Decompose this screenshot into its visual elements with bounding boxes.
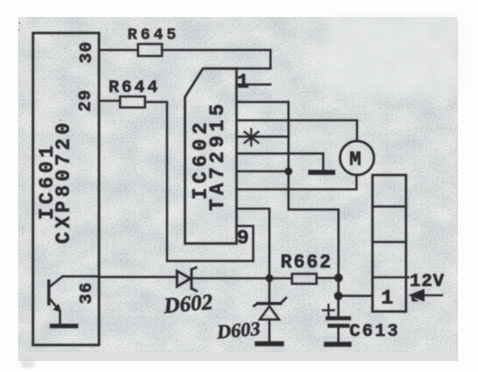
- svg-text:29: 29: [76, 89, 96, 112]
- svg-text:30: 30: [77, 41, 97, 64]
- svg-text:36: 36: [77, 282, 97, 305]
- svg-text:TA72915: TA72915: [207, 100, 230, 211]
- wire IC602 pin a: [237, 102, 339, 278]
- svg-text:1: 1: [381, 288, 393, 311]
- wire IC602 pin g down to bus: [237, 209, 270, 278]
- wire bus D602 to R662: [191, 277, 293, 279]
- wire pin36 bus: [99, 276, 177, 278]
- wire node D down to C613: [337, 296, 339, 317]
- transistor Q inside IC601: [49, 276, 99, 323]
- ground below D603: [257, 341, 281, 346]
- connector column: [373, 175, 409, 312]
- svg-text:CXP80720: CXP80720: [53, 119, 76, 244]
- IC601: [33, 33, 99, 345]
- op-amp/driver IC602: [185, 69, 237, 244]
- svg-text:R644: R644: [109, 78, 161, 98]
- wire R645 to IC602 pin1: [162, 50, 271, 69]
- wire pin30 to R645: [99, 49, 138, 51]
- node junction dot D: [334, 292, 343, 301]
- svg-text:1: 1: [237, 72, 249, 95]
- 12V arrow: [408, 289, 442, 302]
- capacitor C613: [323, 305, 400, 342]
- wire R644 to IC602 pin9: [145, 102, 253, 261]
- wire node C down to node D: [337, 278, 339, 296]
- zener diode D603: [215, 278, 286, 343]
- ground (emitter): [52, 324, 76, 329]
- pin 9 box of IC602: [237, 226, 254, 261]
- svg-text:12V: 12V: [410, 271, 445, 292]
- svg-text:M: M: [349, 149, 361, 172]
- wire pin29 to R644: [99, 100, 120, 102]
- resistor R662: [281, 252, 333, 284]
- wire R662 to node C: [317, 277, 339, 279]
- node junction dot A: [285, 168, 293, 176]
- ground below C613: [326, 342, 349, 347]
- pin 1 box of IC602: [237, 69, 271, 95]
- wire IC602 to motor bottom: [237, 175, 357, 189]
- motor M: [340, 141, 374, 175]
- svg-text:R645: R645: [128, 26, 180, 44]
- svg-text:D602: D602: [162, 289, 214, 318]
- wire node D to connector pin 1: [338, 295, 372, 297]
- diode D602: [162, 268, 214, 319]
- wire IC602 to motor top: [237, 120, 358, 141]
- node junction dot B: [266, 274, 274, 282]
- node junction dot C: [334, 274, 343, 283]
- asterisk mark: [245, 129, 259, 146]
- wire IC602 to chassis bar: [237, 154, 324, 170]
- chassis bar: [311, 170, 333, 175]
- svg-text:9: 9: [237, 228, 249, 251]
- svg-text:C613: C613: [350, 322, 400, 342]
- wire IC602 asterisk pin: [237, 136, 289, 138]
- svg-text:D603: D603: [215, 319, 261, 344]
- resistor R645: [128, 26, 180, 56]
- wire IC602 pin e: [237, 170, 289, 172]
- svg-text:R662: R662: [281, 252, 333, 274]
- resistor R644: [109, 78, 161, 108]
